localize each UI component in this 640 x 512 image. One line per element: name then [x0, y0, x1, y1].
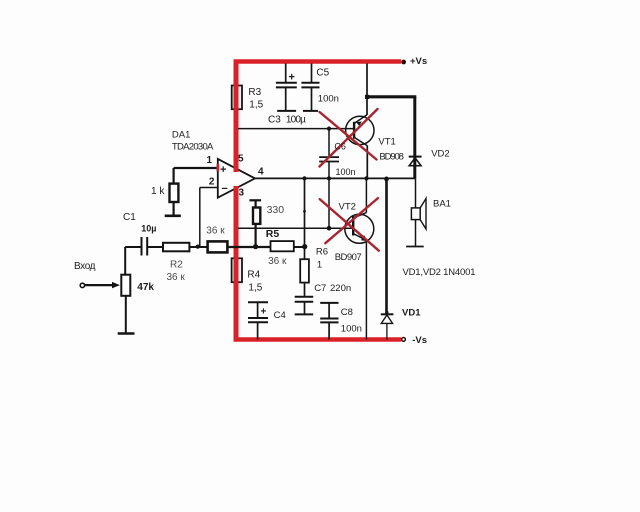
svg-text:TDA2030A: TDA2030A	[172, 142, 214, 153]
svg-text:VD1: VD1	[402, 308, 421, 319]
svg-text:4: 4	[258, 167, 264, 178]
svg-text:330: 330	[267, 204, 285, 216]
svg-text:36 к: 36 к	[268, 256, 287, 267]
svg-text:1,5: 1,5	[249, 100, 263, 111]
svg-text:+: +	[220, 164, 226, 176]
svg-text:36 к: 36 к	[206, 226, 225, 237]
svg-text:1: 1	[317, 260, 322, 271]
svg-text:+Vs: +Vs	[410, 56, 427, 67]
svg-text:10µ: 10µ	[141, 223, 156, 233]
svg-text:2: 2	[209, 177, 215, 188]
svg-text:−: −	[221, 183, 227, 195]
svg-text:+: +	[289, 72, 295, 84]
svg-text:C1: C1	[123, 212, 136, 223]
svg-text:BA1: BA1	[433, 199, 451, 210]
svg-text:DA1: DA1	[172, 130, 190, 141]
svg-text:3: 3	[239, 188, 245, 199]
svg-text:R4: R4	[247, 270, 260, 281]
svg-text:C5: C5	[316, 68, 329, 79]
svg-text:-Vs: -Vs	[412, 335, 427, 346]
svg-text:220n: 220n	[330, 283, 351, 294]
svg-text:100n: 100n	[318, 94, 339, 105]
svg-text:36 к: 36 к	[167, 272, 186, 283]
svg-text:R3: R3	[248, 87, 261, 98]
svg-text:C7: C7	[314, 283, 326, 294]
svg-text:R5: R5	[266, 228, 280, 240]
svg-text:+: +	[261, 307, 267, 318]
svg-text:5: 5	[238, 154, 244, 165]
svg-text:C6: C6	[334, 141, 346, 151]
svg-text:1: 1	[207, 155, 213, 166]
svg-text:100n: 100n	[336, 167, 356, 177]
svg-text:BD907: BD907	[335, 252, 362, 263]
svg-text:Вход: Вход	[74, 261, 96, 272]
svg-text:100µ: 100µ	[286, 115, 306, 126]
svg-text:100n: 100n	[341, 324, 362, 335]
svg-text:BD908: BD908	[379, 152, 404, 163]
svg-text:R2: R2	[170, 260, 183, 271]
svg-text:47k: 47k	[137, 282, 154, 293]
svg-text:VT1: VT1	[378, 137, 395, 148]
svg-text:VD2: VD2	[431, 148, 449, 159]
svg-text:C3: C3	[268, 115, 281, 126]
svg-text:1 k: 1 k	[151, 186, 165, 197]
svg-text:VT2: VT2	[339, 201, 356, 212]
svg-text:C8: C8	[341, 307, 353, 318]
svg-text:1,5: 1,5	[248, 283, 262, 294]
svg-text:C4: C4	[274, 310, 286, 321]
svg-text:VD1,VD2 1N4001: VD1,VD2 1N4001	[403, 267, 476, 278]
svg-text:R6: R6	[316, 247, 328, 258]
